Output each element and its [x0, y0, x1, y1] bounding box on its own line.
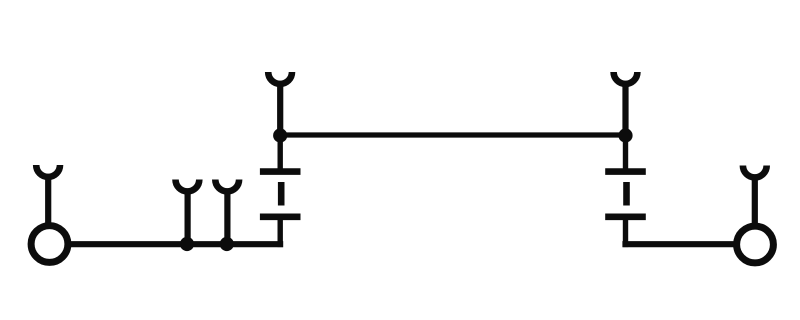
junction dot C (top left) — [273, 128, 287, 142]
junction dot B on bottom bus — [220, 237, 234, 251]
wire: top-right fork stem down to junction — [622, 83, 628, 135]
wire: top-left fork stem down to junction — [277, 83, 283, 135]
disconnect knife symbol right: lower bar — [605, 214, 646, 221]
disconnect knife symbol right: middle blade — [623, 182, 630, 206]
junction dot A on bottom bus — [180, 237, 194, 251]
wire: from right disconnect down to bottom bus corner — [623, 217, 628, 247]
disconnect knife symbol left: middle blade — [278, 182, 285, 206]
wire: fork B stem — [224, 191, 230, 241]
wire: fork A stem — [185, 191, 191, 241]
fork contact above right terminal — [743, 166, 767, 178]
fork contact top left — [268, 72, 292, 84]
fork contact above left terminal — [36, 165, 60, 177]
disconnect knife symbol left: upper bar — [260, 168, 301, 175]
wire: top horizontal link — [280, 132, 625, 137]
junction dot D (top right) — [618, 128, 632, 142]
wire: right fork stem down to circle — [752, 177, 758, 224]
wire: bottom left horizontal bus — [69, 241, 283, 247]
wire: vertical from junction D to right disconnect — [623, 136, 628, 175]
wire: left fork stem down to circle — [45, 176, 51, 223]
wire: from disconnect down and corner into bottom bus — [278, 217, 283, 247]
terminal circle right (screw terminal) — [737, 226, 774, 263]
fork contact above junction B — [215, 180, 239, 192]
wire: bottom right horizontal bus — [622, 241, 735, 247]
wire: vertical from junction C to disconnect — [278, 136, 283, 175]
fork contact above junction A — [176, 180, 200, 192]
fork contact top right — [614, 72, 638, 84]
disconnect knife symbol right: upper bar — [605, 168, 646, 175]
terminal circle left (screw terminal) — [31, 226, 68, 263]
disconnect knife symbol left: lower bar — [260, 214, 301, 221]
